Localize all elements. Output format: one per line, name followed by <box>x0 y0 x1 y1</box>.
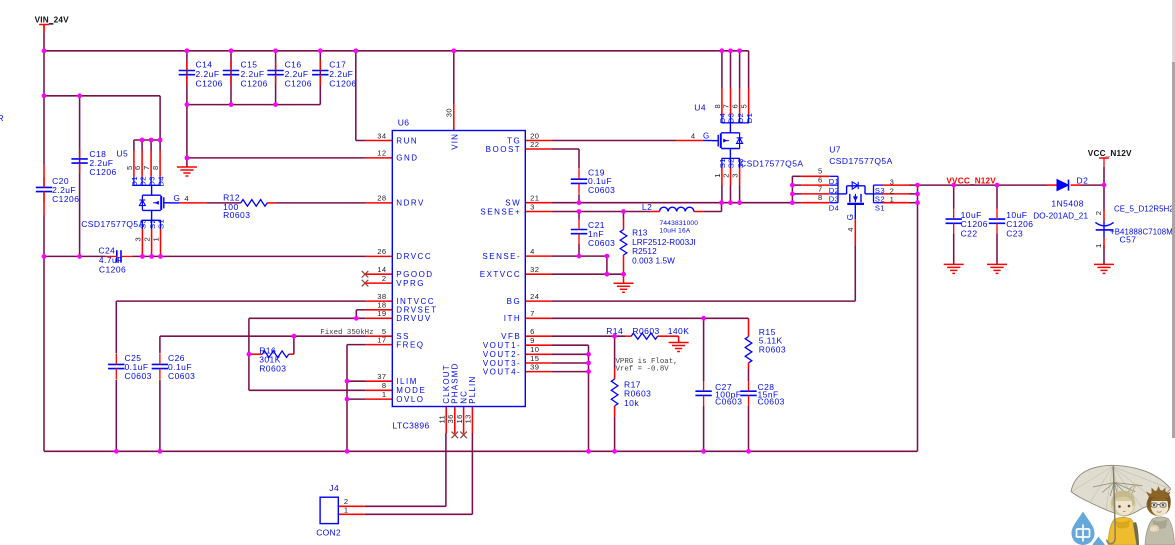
svg-text:5: 5 <box>818 167 823 176</box>
svg-text:R14: R14 <box>606 326 623 336</box>
svg-text:PGOOD: PGOOD <box>396 270 433 279</box>
svg-text:1: 1 <box>382 390 387 399</box>
svg-text:G: G <box>846 213 855 220</box>
svg-text:36: 36 <box>446 414 455 423</box>
svg-text:PLLIN: PLLIN <box>468 376 477 404</box>
svg-text:4: 4 <box>530 247 535 256</box>
svg-text:EXTVCC: EXTVCC <box>480 270 521 279</box>
svg-text:2: 2 <box>143 237 152 242</box>
svg-text:VIN: VIN <box>451 133 460 150</box>
svg-text:C23: C23 <box>1006 228 1023 238</box>
svg-text:19: 19 <box>377 309 386 318</box>
svg-text:6: 6 <box>731 104 740 109</box>
svg-text:D3: D3 <box>829 195 840 204</box>
svg-text:NC: NC <box>459 390 468 404</box>
svg-text:10uH 16A: 10uH 16A <box>660 228 691 235</box>
svg-text:S2: S2 <box>875 195 885 204</box>
svg-text:32: 32 <box>530 265 539 274</box>
svg-text:PHASMD: PHASMD <box>451 362 460 403</box>
svg-text:26: 26 <box>377 247 386 256</box>
svg-text:2: 2 <box>890 186 895 195</box>
svg-text:DO-201AD_21: DO-201AD_21 <box>1033 212 1088 221</box>
svg-text:16: 16 <box>455 414 464 423</box>
svg-text:RUN: RUN <box>396 136 418 145</box>
svg-text:DRVUV: DRVUV <box>396 314 431 323</box>
svg-text:0.003 1.5W: 0.003 1.5W <box>632 257 675 266</box>
svg-text:8: 8 <box>151 165 160 170</box>
svg-text:VOUT4-: VOUT4- <box>483 367 521 376</box>
svg-text:LTC3896: LTC3896 <box>393 420 430 430</box>
svg-text:OVLO: OVLO <box>396 395 424 404</box>
svg-text:D1: D1 <box>745 113 754 124</box>
svg-text:5: 5 <box>740 104 749 109</box>
svg-text:3: 3 <box>133 237 142 242</box>
svg-text:1: 1 <box>1094 243 1103 248</box>
svg-text:R: R <box>0 113 4 123</box>
svg-text:Fixed 350kHz: Fixed 350kHz <box>320 329 373 337</box>
svg-text:S3: S3 <box>875 186 885 195</box>
svg-text:MODE: MODE <box>396 386 426 395</box>
svg-text:13: 13 <box>464 414 473 423</box>
svg-text:21: 21 <box>530 194 539 203</box>
svg-text:C0603: C0603 <box>588 185 615 195</box>
svg-text:BG: BG <box>507 297 522 306</box>
svg-text:2: 2 <box>1094 211 1103 216</box>
svg-text:D1: D1 <box>829 177 840 186</box>
svg-text:FREQ: FREQ <box>396 340 424 349</box>
svg-text:3: 3 <box>731 173 740 178</box>
svg-text:C1206: C1206 <box>285 78 312 88</box>
svg-text:8: 8 <box>382 381 387 390</box>
svg-text:D2: D2 <box>829 186 840 195</box>
svg-text:ILIM: ILIM <box>396 377 418 386</box>
svg-text:4: 4 <box>184 194 189 203</box>
svg-text:D3: D3 <box>147 176 156 187</box>
svg-text:CSD17577Q5A: CSD17577Q5A <box>81 219 145 229</box>
svg-text:C1206: C1206 <box>241 78 268 88</box>
svg-text:S1: S1 <box>157 219 166 229</box>
svg-text:U6: U6 <box>398 118 410 128</box>
svg-text:4: 4 <box>691 131 696 140</box>
svg-text:D2: D2 <box>1077 176 1089 186</box>
svg-text:SENSE+: SENSE+ <box>480 207 521 216</box>
svg-text:R13: R13 <box>632 228 648 237</box>
svg-text:R2512: R2512 <box>632 247 657 256</box>
svg-text:140K: 140K <box>668 326 690 336</box>
svg-text:C1206: C1206 <box>196 78 223 88</box>
svg-text:CSD17577Q5A: CSD17577Q5A <box>829 156 893 166</box>
svg-text:GND: GND <box>396 154 418 163</box>
svg-text:BOOST: BOOST <box>486 145 522 154</box>
svg-text:8: 8 <box>818 193 823 202</box>
svg-text:4: 4 <box>846 227 855 232</box>
svg-text:7: 7 <box>530 309 535 318</box>
svg-text:1: 1 <box>890 195 895 204</box>
svg-text:DRVCC: DRVCC <box>396 252 432 261</box>
svg-text:C0603: C0603 <box>125 371 152 381</box>
svg-text:C1206: C1206 <box>89 167 116 177</box>
svg-text:C0603: C0603 <box>168 371 195 381</box>
svg-text:CSD17577Q5A: CSD17577Q5A <box>740 159 804 169</box>
svg-text:12: 12 <box>377 149 386 158</box>
svg-text:C1206: C1206 <box>52 194 79 204</box>
svg-text:VPRG: VPRG <box>396 279 425 288</box>
svg-text:ITH: ITH <box>504 314 521 323</box>
svg-text:S2: S2 <box>148 219 157 229</box>
svg-text:L2: L2 <box>642 202 652 212</box>
svg-text:G: G <box>703 132 710 141</box>
svg-text:C0603: C0603 <box>588 238 615 248</box>
svg-text:7: 7 <box>818 184 823 193</box>
svg-text:S2: S2 <box>727 158 736 168</box>
svg-text:D2: D2 <box>736 113 745 124</box>
svg-text:D4: D4 <box>829 203 840 212</box>
svg-text:S3: S3 <box>139 219 148 229</box>
svg-text:J4: J4 <box>329 483 339 493</box>
svg-text:D2: D2 <box>138 176 147 187</box>
svg-text:6: 6 <box>818 176 823 185</box>
svg-text:VCC_N12V: VCC_N12V <box>1088 149 1132 158</box>
svg-text:3: 3 <box>890 178 895 187</box>
svg-text:LRF2512-R003JI: LRF2512-R003JI <box>632 238 696 247</box>
svg-text:3: 3 <box>530 202 535 211</box>
svg-text:30: 30 <box>444 108 453 117</box>
svg-text:7: 7 <box>722 104 731 109</box>
svg-text:VOUT2-: VOUT2- <box>483 350 521 359</box>
svg-text:1: 1 <box>344 506 349 515</box>
svg-text:6: 6 <box>530 327 535 336</box>
svg-text:28: 28 <box>377 194 386 203</box>
svg-text:7443831000: 7443831000 <box>660 220 699 227</box>
svg-text:2: 2 <box>722 173 731 178</box>
svg-text:R0603: R0603 <box>632 326 659 336</box>
svg-text:CON2: CON2 <box>316 527 341 537</box>
svg-text:C22: C22 <box>961 228 978 238</box>
svg-text:CE_5_D12R5H2: CE_5_D12R5H2 <box>1114 205 1174 214</box>
svg-text:U5: U5 <box>116 149 128 159</box>
svg-text:34: 34 <box>377 131 386 140</box>
svg-text:C0603: C0603 <box>758 397 785 407</box>
svg-text:VOUT1-: VOUT1- <box>483 341 521 350</box>
svg-text:7: 7 <box>142 165 151 170</box>
svg-text:14: 14 <box>377 265 386 274</box>
svg-text:6: 6 <box>133 165 142 170</box>
svg-text:24: 24 <box>530 292 539 301</box>
svg-text:17: 17 <box>377 335 386 344</box>
svg-text:G: G <box>174 194 181 203</box>
svg-text:1: 1 <box>152 237 161 242</box>
svg-text:SW: SW <box>505 199 521 208</box>
svg-text:D3: D3 <box>727 113 736 124</box>
svg-text:2: 2 <box>382 274 387 283</box>
svg-text:S3: S3 <box>736 158 745 168</box>
svg-text:38: 38 <box>377 292 386 301</box>
svg-text:S1: S1 <box>875 204 885 213</box>
svg-text:U4: U4 <box>694 103 706 113</box>
svg-text:U7: U7 <box>829 145 841 155</box>
svg-text:INTVCC: INTVCC <box>396 297 435 306</box>
svg-text:VFB: VFB <box>501 332 521 341</box>
svg-text:D4: D4 <box>156 176 165 187</box>
svg-text:22: 22 <box>530 140 539 149</box>
svg-text:NDRV: NDRV <box>396 199 425 208</box>
svg-text:VIN_24V: VIN_24V <box>35 15 70 24</box>
svg-text:10k: 10k <box>624 398 639 408</box>
svg-text:R0603: R0603 <box>259 364 286 374</box>
svg-text:C57: C57 <box>1120 235 1137 245</box>
svg-text:R0603: R0603 <box>759 345 786 355</box>
svg-text:39: 39 <box>530 362 539 371</box>
svg-text:C0603: C0603 <box>715 397 742 407</box>
svg-text:C1206: C1206 <box>329 78 356 88</box>
svg-text:VVCC_N12V: VVCC_N12V <box>946 177 996 186</box>
svg-text:1N5408: 1N5408 <box>1051 199 1083 209</box>
svg-text:SENSE-: SENSE- <box>482 252 521 261</box>
svg-text:37: 37 <box>377 372 386 381</box>
svg-text:Vref = -0.8V: Vref = -0.8V <box>616 366 670 374</box>
svg-text:R0603: R0603 <box>223 210 250 220</box>
svg-text:C1206: C1206 <box>99 264 126 274</box>
svg-text:9: 9 <box>530 336 535 345</box>
svg-text:10: 10 <box>530 345 539 354</box>
